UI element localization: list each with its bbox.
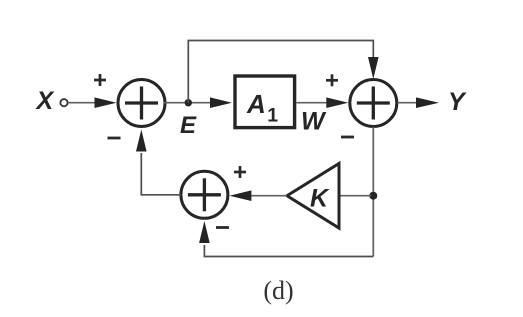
svg-text:X: X [35, 87, 55, 115]
sign - (S1 feedback input) [108, 137, 121, 140]
wire S2 to Y output with arrowhead [398, 97, 440, 108]
svg-text:E: E [180, 112, 197, 139]
sign + (S2 input from W) [326, 74, 338, 86]
wire S2 bottom down to bottom rail [372, 127, 374, 257]
wire S3 output to S1 bottom with arrowhead [136, 130, 181, 195]
wire bottom rail to S3 bottom with arrowhead [199, 221, 373, 257]
wire A1 to S2 with arrowhead [297, 97, 349, 108]
summing junction S1 [118, 80, 165, 127]
input terminal [60, 99, 67, 106]
sign + (S1 input from X) [94, 74, 106, 86]
svg-text:(d): (d) [263, 276, 293, 305]
block A1 [235, 76, 295, 128]
summing junction S3 [181, 171, 228, 218]
amplifier K [287, 164, 339, 229]
summing junction S2 [350, 80, 397, 127]
sign - (S2 input from below) [341, 136, 354, 139]
svg-text:1: 1 [267, 105, 278, 127]
svg-text:W: W [301, 108, 327, 136]
wire X input with arrowhead [68, 97, 117, 108]
wire feedforward E to S2 top with arrowhead [188, 41, 378, 103]
sign - (S3 input from bottom rail) [216, 226, 229, 229]
svg-text:A: A [246, 89, 266, 119]
svg-text:K: K [310, 185, 330, 213]
svg-text:Y: Y [448, 88, 467, 116]
sign + (S3 input from K) [234, 166, 246, 178]
junction node dot [369, 192, 377, 200]
wire junction to K input [338, 195, 371, 197]
wire K output to S3 with arrowhead [229, 190, 287, 201]
wire S1 to A1 with arrowhead [164, 97, 232, 108]
node E junction dot [185, 99, 192, 106]
